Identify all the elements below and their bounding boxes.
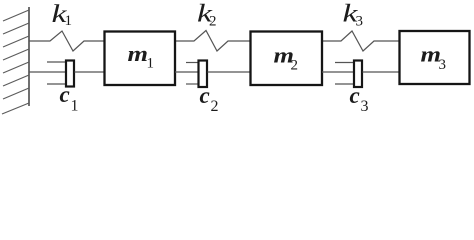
- wall hatch 6: [3, 75, 29, 86]
- damper c2 rod left: [175, 71, 198, 73]
- damper c3 prong top: [335, 62, 354, 64]
- label c3: [350, 83, 369, 115]
- svg-text:2: 2: [291, 58, 299, 74]
- svg-text:3: 3: [361, 98, 369, 115]
- mass m2: [251, 32, 323, 86]
- svg-text:3: 3: [356, 14, 364, 30]
- damper c3 rod left: [322, 71, 354, 73]
- damper c2 prong bottom: [186, 83, 198, 85]
- svg-text:1: 1: [147, 56, 155, 72]
- label c1: [60, 82, 79, 115]
- spring k2: [175, 31, 250, 52]
- wall hatch 5: [3, 62, 29, 73]
- damper c1 rod right: [75, 71, 105, 73]
- damper c1 rod left: [29, 71, 66, 73]
- mass m3: [400, 31, 470, 84]
- wall hatch 8: [2, 103, 29, 114]
- label k1: [52, 1, 73, 29]
- label m2: [274, 43, 299, 74]
- label m1: [128, 41, 155, 72]
- svg-text:2: 2: [209, 14, 217, 30]
- svg-text:c: c: [200, 83, 210, 108]
- wall hatch 7: [3, 88, 29, 99]
- damper c3 piston: [354, 61, 362, 88]
- wall hatch 1: [3, 10, 29, 21]
- svg-text:1: 1: [65, 13, 73, 29]
- wall hatch 3: [3, 36, 29, 47]
- damper c3 prong bottom: [335, 83, 354, 85]
- wall hatch 2: [3, 23, 29, 34]
- svg-text:3: 3: [439, 57, 447, 73]
- label m3: [421, 42, 447, 74]
- svg-text:c: c: [60, 82, 70, 107]
- damper c1 prong bottom: [47, 83, 66, 85]
- damper c2 rod right: [208, 71, 251, 73]
- svg-text:1: 1: [71, 98, 79, 115]
- damper c3 rod right: [363, 71, 400, 73]
- label k2: [197, 1, 217, 30]
- damper c1 prong top: [47, 61, 66, 63]
- wall hatch 4: [3, 49, 29, 60]
- damper c2 piston: [199, 61, 208, 88]
- spring k1: [29, 31, 104, 51]
- label c2: [200, 83, 219, 115]
- spring k3: [322, 31, 399, 51]
- damper c2 prong top: [186, 62, 198, 64]
- svg-text:m: m: [128, 41, 149, 66]
- mass m1: [105, 32, 176, 86]
- svg-text:2: 2: [211, 98, 219, 115]
- wall: [28, 7, 30, 106]
- svg-text:c: c: [350, 83, 360, 108]
- damper c1 piston: [66, 61, 74, 87]
- label k3: [343, 1, 364, 30]
